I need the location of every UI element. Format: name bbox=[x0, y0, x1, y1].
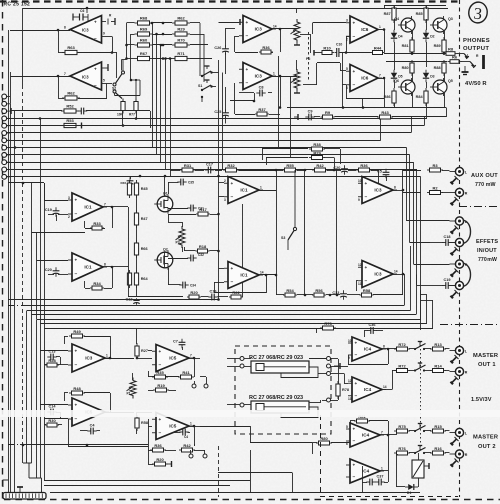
svg-text:R84: R84 bbox=[416, 95, 424, 99]
svg-text:R29: R29 bbox=[313, 150, 321, 155]
terminal bar bbox=[424, 463, 429, 469]
resistor R80 bbox=[316, 436, 332, 445]
wire vertical x40 bbox=[40, 118, 42, 323]
wire matrix row 2 b bbox=[153, 34, 173, 36]
capacitor C14 bbox=[47, 404, 56, 415]
wire fb up bbox=[58, 30, 60, 53]
svg-text:IC6: IC6 bbox=[361, 27, 369, 32]
wire matrix row 4 c bbox=[190, 58, 212, 60]
wire y232 row bbox=[32, 232, 85, 234]
wire R17 right bbox=[210, 214, 219, 216]
svg-text:OUTPUT: OUTPUT bbox=[463, 46, 489, 52]
svg-text:S1: S1 bbox=[198, 84, 202, 88]
wire matrix vertical 3 bbox=[160, 45, 162, 162]
connector pin 2 bbox=[2, 101, 7, 106]
svg-text:3: 3 bbox=[68, 196, 70, 200]
switch bbox=[414, 342, 426, 351]
wire C4b l bbox=[172, 432, 181, 434]
wire bbox=[350, 421, 352, 429]
svg-text:D5: D5 bbox=[398, 75, 402, 79]
svg-text:R2: R2 bbox=[432, 185, 438, 190]
svg-text:C26: C26 bbox=[214, 46, 221, 50]
op-amp IC3 bbox=[358, 177, 397, 204]
wire IC5c in bbox=[148, 426, 152, 428]
resistor R55 bbox=[282, 163, 298, 172]
resistor R14 bbox=[430, 363, 446, 372]
svg-text:R29: R29 bbox=[177, 27, 185, 32]
wire mid rail phones R bbox=[386, 61, 447, 63]
wire bus top 3 bbox=[7, 132, 412, 134]
svg-text:14: 14 bbox=[394, 270, 398, 274]
resistor R22 bbox=[229, 290, 243, 299]
wire left col IC1a-bottom bbox=[128, 207, 130, 296]
capacitor bbox=[366, 479, 375, 486]
resistor R48 bbox=[69, 386, 85, 395]
svg-text:13: 13 bbox=[358, 282, 362, 286]
wire drop bbox=[316, 328, 318, 333]
connector pin 6 bbox=[2, 131, 7, 136]
diode D5 bbox=[391, 70, 403, 82]
wire into IC2e bbox=[371, 170, 378, 172]
wire into delay1 b bbox=[227, 366, 240, 368]
test point bbox=[327, 364, 331, 368]
wire vertical x278 from R36 row bbox=[278, 56, 280, 149]
resistor R75 bbox=[394, 424, 410, 433]
svg-text:10: 10 bbox=[358, 179, 362, 183]
wire IC1c out bbox=[259, 190, 276, 192]
wire bus top droppers to effets bbox=[406, 148, 408, 222]
svg-text:Q1: Q1 bbox=[163, 192, 168, 196]
wire R64-rail bbox=[136, 285, 138, 296]
wire vertical x36 lower bbox=[36, 320, 38, 479]
wire D3 to R84 bbox=[426, 82, 428, 88]
feedback R36 bbox=[280, 29, 282, 52]
wire vertical x31 lower bbox=[31, 315, 33, 464]
wire fb IC5c bbox=[194, 426, 196, 446]
wire into C18 bbox=[430, 242, 444, 244]
wire stub bbox=[420, 294, 427, 296]
transistor Q5 bbox=[430, 78, 453, 96]
wire cap stub bbox=[130, 176, 132, 179]
svg-text:R43: R43 bbox=[381, 110, 389, 115]
nested wire R29 row bbox=[266, 157, 308, 159]
svg-text:P2: P2 bbox=[306, 57, 310, 61]
svg-text:R48: R48 bbox=[73, 386, 81, 391]
svg-text:+: + bbox=[355, 341, 358, 346]
wire bbox=[409, 348, 414, 350]
svg-text:R76: R76 bbox=[398, 446, 406, 451]
wire jog bbox=[320, 400, 322, 403]
wire Q3 emitter to R89 bbox=[444, 31, 446, 40]
wire R20c l bbox=[148, 464, 154, 466]
svg-text:R72: R72 bbox=[398, 342, 406, 347]
wire IC1c in- bbox=[219, 196, 225, 198]
wire left vertical A3 bbox=[8, 445, 10, 493]
wire matrix vertical 1 bbox=[152, 23, 154, 148]
feedback R48 loop bbox=[64, 393, 66, 401]
wire IC4d gnd drop bbox=[362, 482, 364, 493]
wire matrix row 4 b bbox=[153, 58, 173, 60]
op-amp IC4 bbox=[348, 337, 386, 361]
resistor R72 bbox=[394, 342, 410, 351]
feedback R34 bbox=[112, 267, 114, 288]
svg-text:C25: C25 bbox=[214, 110, 221, 114]
wire aux row y170 bbox=[195, 170, 204, 172]
svg-text:+: + bbox=[75, 198, 78, 203]
svg-text:S2: S2 bbox=[112, 87, 116, 91]
resistor R29 bbox=[309, 150, 325, 159]
feedback loop IC6a with R44 bbox=[378, 29, 384, 31]
separator dash-dot aux bbox=[459, 206, 500, 208]
wire bbox=[200, 376, 206, 378]
capacitor C13 bbox=[47, 349, 56, 360]
resistor R18 bbox=[196, 244, 210, 253]
svg-text:OUT 2: OUT 2 bbox=[478, 444, 496, 450]
svg-text:5: 5 bbox=[346, 67, 348, 71]
svg-text:770 mW: 770 mW bbox=[475, 182, 496, 188]
wire jog bbox=[112, 52, 117, 54]
svg-text:−: − bbox=[353, 476, 356, 481]
svg-text:R80: R80 bbox=[320, 436, 328, 441]
plug symbol bbox=[451, 269, 459, 277]
plug symbol bbox=[451, 459, 459, 467]
svg-text:R36: R36 bbox=[154, 443, 162, 448]
op-amp IC4 bbox=[346, 423, 384, 447]
wire tp right bbox=[331, 358, 339, 360]
wire Q2 col bbox=[164, 252, 166, 268]
transistor Q2 bbox=[154, 248, 173, 270]
wire R30 r bbox=[58, 424, 62, 426]
capacitor C18 bbox=[442, 235, 451, 246]
resistor R56 bbox=[312, 288, 326, 297]
wire tp3 bbox=[318, 373, 327, 375]
wire matrix row 2 c bbox=[190, 34, 204, 36]
wire fb up2 bbox=[58, 76, 60, 98]
wire C8 left bbox=[239, 92, 254, 94]
wire IC3d out bbox=[272, 76, 297, 78]
wire left vertical C bbox=[14, 111, 16, 493]
resistor R17 bbox=[196, 207, 210, 216]
plug symbol bbox=[451, 437, 459, 445]
wire S2 resistor drops bbox=[122, 111, 124, 126]
wire up to R row2 bbox=[392, 370, 394, 390]
svg-text:R30: R30 bbox=[48, 418, 56, 423]
svg-text:R8: R8 bbox=[448, 47, 454, 52]
connector pin 5 bbox=[2, 123, 7, 128]
jack AUX R bbox=[450, 188, 468, 196]
wire tp right2 bbox=[331, 366, 343, 368]
wire R30 row bbox=[44, 418, 68, 420]
wire IC5a inputs bbox=[148, 350, 152, 352]
svg-text:R46: R46 bbox=[120, 181, 126, 185]
svg-text:3: 3 bbox=[346, 19, 348, 23]
wire R27 up bbox=[136, 328, 138, 344]
wire top rail y8 bbox=[23, 8, 448, 10]
capacitor bbox=[78, 108, 87, 115]
wire C36 l bbox=[364, 330, 368, 332]
svg-text:IC4: IC4 bbox=[364, 347, 372, 352]
svg-text:2: 2 bbox=[68, 215, 70, 219]
wire mid bus 1 bbox=[23, 305, 404, 307]
svg-text:+: + bbox=[75, 349, 78, 354]
svg-text:R: R bbox=[465, 371, 468, 375]
svg-text:R33: R33 bbox=[93, 221, 101, 226]
wire left col bottom bbox=[148, 419, 150, 464]
svg-text:7: 7 bbox=[64, 72, 66, 76]
svg-text:IC1: IC1 bbox=[240, 273, 248, 278]
capacitor bbox=[127, 177, 134, 186]
svg-text:R3: R3 bbox=[432, 163, 438, 168]
diode D4 bbox=[391, 30, 403, 42]
svg-text:14: 14 bbox=[383, 385, 387, 389]
svg-text:+: + bbox=[159, 349, 162, 354]
svg-text:R42: R42 bbox=[183, 443, 191, 448]
resistor R42 bbox=[312, 163, 328, 172]
svg-text:Q3: Q3 bbox=[448, 17, 453, 21]
test point circle bbox=[204, 384, 208, 388]
svg-text:R38: R38 bbox=[313, 142, 321, 147]
wire transistor bottom rail bbox=[287, 107, 446, 109]
resistor R18 row bbox=[184, 250, 196, 252]
wire R36 R42 row bbox=[148, 450, 152, 452]
wire tp stub2 bbox=[206, 377, 208, 384]
terminal bar conn3 bbox=[10, 108, 12, 114]
wire vertical x27 bbox=[26, 311, 28, 464]
wire aux bbox=[297, 170, 306, 172]
wire R3 to aux L jack bbox=[403, 170, 421, 172]
wire IC1d out bbox=[259, 274, 276, 276]
resistor R36 bbox=[259, 45, 273, 54]
svg-text:−: − bbox=[353, 440, 356, 445]
wire fb col bbox=[388, 435, 390, 471]
svg-text:R37: R37 bbox=[258, 107, 266, 112]
wire C36 drop bbox=[364, 331, 366, 338]
svg-text:8: 8 bbox=[394, 186, 396, 190]
svg-text:IC3: IC3 bbox=[255, 27, 263, 32]
wire bus top 5 bbox=[7, 147, 407, 149]
wire up to R3 row bbox=[402, 170, 404, 190]
svg-text:−: − bbox=[159, 431, 162, 436]
wire to IC5c bbox=[137, 412, 152, 414]
svg-text:12: 12 bbox=[348, 379, 352, 383]
svg-text:OUT 1: OUT 1 bbox=[478, 362, 496, 368]
op-amp IC5 bbox=[68, 398, 109, 426]
capacitor C37 bbox=[375, 474, 384, 485]
svg-text:R: R bbox=[465, 453, 468, 457]
wire delay2 tail bbox=[281, 407, 318, 418]
svg-text:IC4: IC4 bbox=[362, 433, 370, 438]
resistor R36 bbox=[356, 163, 372, 172]
wire mid bus right risers bbox=[404, 274, 406, 306]
terminal bar bbox=[167, 461, 172, 467]
wire P1 top bbox=[132, 373, 134, 380]
wire C18 jack bbox=[451, 242, 456, 244]
wire left vertical A bbox=[8, 30, 10, 300]
switch bbox=[414, 446, 426, 455]
wire vertical x23 bbox=[22, 8, 24, 85]
wire tp right3 bbox=[331, 373, 343, 375]
svg-text:R41: R41 bbox=[182, 370, 190, 375]
plug symbol bbox=[451, 355, 459, 363]
resistor R70 bbox=[172, 38, 190, 47]
svg-text:+: + bbox=[94, 67, 97, 72]
svg-text:R31: R31 bbox=[184, 163, 192, 168]
resistor R16 bbox=[430, 446, 446, 455]
wire IC4b out bbox=[382, 389, 392, 391]
op-amp IC6 bbox=[346, 16, 382, 43]
svg-text:C4: C4 bbox=[184, 435, 188, 439]
svg-text:R36: R36 bbox=[262, 45, 270, 50]
wire bbox=[244, 366, 251, 368]
switch S3 bbox=[281, 170, 297, 250]
capacitor C6 bbox=[73, 8, 88, 21]
wire R58 stub bbox=[136, 412, 138, 417]
svg-text:S3: S3 bbox=[281, 236, 285, 240]
capacitor bbox=[187, 205, 196, 212]
resistor R81 bbox=[402, 37, 414, 55]
wire y472 row bbox=[218, 472, 292, 474]
feedback loop IC6b bbox=[378, 78, 384, 80]
wire D2 down bbox=[426, 42, 428, 67]
border right-section dashed bbox=[459, 0, 461, 497]
svg-text:R62: R62 bbox=[177, 16, 185, 21]
resistor R8 bbox=[444, 47, 458, 56]
wire vertical x23 lower bbox=[22, 445, 24, 463]
wire R17 left bbox=[168, 214, 196, 216]
wire C4 left bbox=[80, 430, 88, 432]
svg-text:+: + bbox=[75, 403, 78, 408]
svg-text:+: + bbox=[355, 381, 358, 386]
svg-text:−: − bbox=[75, 364, 78, 369]
svg-text:R32: R32 bbox=[227, 163, 235, 168]
resistor R38 bbox=[309, 142, 325, 151]
wire IC1b inputs bbox=[37, 260, 68, 262]
svg-text:C9: C9 bbox=[308, 109, 313, 113]
potentiometer bbox=[291, 19, 301, 43]
svg-text:2: 2 bbox=[224, 179, 226, 183]
svg-text:−: − bbox=[365, 279, 368, 284]
svg-text:RC 27 068/RC 29 023: RC 27 068/RC 29 023 bbox=[249, 395, 303, 401]
wire tp stub bbox=[194, 381, 196, 384]
wire to D5 bbox=[394, 67, 396, 70]
svg-text:14: 14 bbox=[273, 25, 277, 29]
resistor R53 bbox=[61, 118, 79, 127]
capacitor C19 bbox=[45, 207, 60, 216]
svg-text:+: + bbox=[231, 266, 234, 271]
border left dashed bbox=[2, 0, 4, 503]
op-amp IC1 bbox=[224, 262, 264, 289]
resistor R45 bbox=[134, 180, 147, 198]
resistor R54 bbox=[283, 288, 297, 297]
wire to IC4d in bbox=[362, 466, 364, 477]
svg-text:IC1: IC1 bbox=[84, 205, 92, 210]
pot gang dashed link P2 bbox=[308, 32, 310, 80]
resistor R60 bbox=[135, 38, 153, 47]
op-amp IC6 bbox=[346, 65, 382, 92]
wire bbox=[342, 373, 344, 375]
svg-text:1: 1 bbox=[190, 422, 192, 426]
wire IC5c to master bbox=[200, 426, 250, 428]
svg-text:C17: C17 bbox=[206, 162, 213, 166]
svg-text:R42: R42 bbox=[316, 163, 324, 168]
terminal bar bbox=[334, 363, 340, 369]
feedback IC1d bbox=[266, 275, 268, 293]
svg-text:2: 2 bbox=[346, 37, 348, 41]
transistor Q6 bbox=[394, 78, 415, 96]
wire mid bus 4 bbox=[37, 319, 421, 321]
wire matrix row 1 b bbox=[153, 22, 173, 24]
wire bbox=[396, 454, 398, 456]
wire matrix row 1 a bbox=[127, 22, 135, 24]
wire IC3b fb down bbox=[106, 84, 108, 99]
resistor R52 bbox=[61, 104, 79, 113]
svg-text:IC1: IC1 bbox=[84, 265, 92, 270]
connector pin 1 bbox=[2, 94, 7, 99]
wire IC3f out bbox=[393, 274, 403, 276]
connector pin 9 bbox=[2, 153, 7, 158]
feedback R33 bbox=[112, 207, 114, 228]
wire bbox=[445, 348, 450, 350]
op-amp IC5 bbox=[152, 345, 193, 372]
separator dash-dot effets bbox=[440, 324, 500, 326]
wire bus top 9 bbox=[7, 176, 421, 178]
test point circle bbox=[203, 454, 207, 458]
wire aux to C20 bbox=[327, 170, 338, 172]
svg-text:R14: R14 bbox=[434, 363, 442, 368]
wire across bbox=[68, 446, 148, 448]
op-amp IC4 bbox=[348, 377, 387, 402]
wire vertical x36 bbox=[36, 232, 38, 319]
wire bus top 8 bbox=[7, 169, 417, 171]
resistor R86 bbox=[384, 88, 396, 106]
svg-text:R34: R34 bbox=[93, 281, 101, 286]
svg-text:+: + bbox=[353, 463, 356, 468]
svg-text:+: + bbox=[246, 67, 249, 72]
wire P2a top bbox=[296, 8, 298, 13]
test point bbox=[327, 372, 331, 376]
resistor R33 bbox=[90, 221, 104, 230]
capacitor C33 bbox=[332, 290, 347, 299]
svg-text:−: − bbox=[355, 394, 358, 399]
svg-text:4V/50 R: 4V/50 R bbox=[465, 81, 487, 87]
wire into IC3e inv bbox=[60, 364, 68, 366]
resistor R41 bbox=[178, 370, 194, 379]
svg-text:IC3: IC3 bbox=[374, 272, 382, 277]
module box RC 27 068/RC 29 023 outline bbox=[235, 346, 331, 434]
resistor R85 bbox=[416, 5, 428, 23]
svg-text:Q2: Q2 bbox=[163, 248, 168, 252]
master2 left dashed border bbox=[320, 415, 322, 496]
svg-text:D3: D3 bbox=[430, 75, 434, 79]
plug symbol bbox=[451, 197, 459, 205]
op-amp IC1 bbox=[68, 253, 107, 281]
wire to P3 bbox=[168, 222, 182, 224]
resistor R63 bbox=[62, 45, 80, 54]
wire vertical x290 from IC3d bbox=[290, 77, 292, 158]
jack MASTER1 R bbox=[450, 367, 468, 375]
svg-text:C19: C19 bbox=[45, 208, 52, 212]
svg-text:Q5: Q5 bbox=[448, 79, 453, 83]
dotted separator x420 bbox=[420, 341, 422, 452]
wire IC1d in+ bbox=[219, 268, 225, 270]
resistor R13 bbox=[430, 342, 446, 351]
capacitor C16 bbox=[208, 289, 217, 300]
wire IC6b input bbox=[342, 84, 346, 86]
wire R81 fb bbox=[369, 420, 388, 422]
wire y101 bbox=[230, 100, 254, 102]
svg-text:IC4: IC4 bbox=[364, 387, 372, 392]
svg-text:R60: R60 bbox=[140, 38, 148, 43]
